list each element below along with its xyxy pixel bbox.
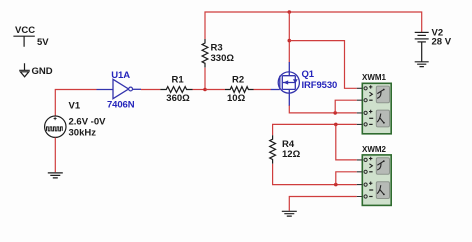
wire R2 to Q1 gate [254,89,272,91]
wire V1 to ground [54,138,56,173]
svg-text:U1A: U1A [111,70,130,81]
wire R3 top to VCC rail [205,12,422,39]
op-amp style inverter U1A 7406N [97,70,142,111]
resistor R1 360 ohm [160,74,192,104]
junction node A (R1 R2 R3) [203,88,207,92]
svg-text:R1: R1 [172,74,185,85]
svg-text:XWM1: XWM1 [362,73,387,82]
svg-text:30kHz: 30kHz [69,128,97,139]
svg-text:2.6V -0V: 2.6V -0V [69,116,107,127]
svg-text:GND: GND [32,66,53,77]
wire Q1 source to XWM1 pin3 [289,106,357,113]
power VCC symbol [13,25,49,48]
junction node R4 top branch [334,123,338,127]
ground under V2 [415,62,429,67]
instrument XWM2 wattmeter [357,145,391,206]
instrument XWM1 wattmeter [357,73,391,134]
junction node source branch [333,111,337,115]
wire V1 to U1A input [55,90,96,116]
svg-text:Q1: Q1 [302,69,315,80]
wire R4 top to XWM1 pin4 [273,124,357,135]
ground under V1 [48,173,63,178]
svg-text:28 V: 28 V [432,37,452,48]
svg-text:330Ω: 330Ω [211,53,235,64]
svg-text:12Ω: 12Ω [282,149,301,160]
wire node A to R2 [205,89,225,91]
svg-text:360Ω: 360Ω [166,93,190,104]
svg-text:IRF9530: IRF9530 [302,80,338,91]
ground (bottom middle) [282,211,297,216]
resistor R2 10 ohm [225,74,254,104]
wire R3 bottom to node A [204,68,206,90]
svg-text:5V: 5V [37,37,49,48]
svg-text:XWM2: XWM2 [362,145,387,154]
battery V2 28V [415,28,452,62]
wire R4 bottom to XWM2 pin3 [273,164,357,185]
resistor R3 330 ohm [202,39,234,68]
transistor Q1 IRF9530 (PMOS) [271,62,337,106]
wire source branch to XWM1 pin2 [335,100,357,113]
wire branch to XWM2 pin1 [336,124,357,159]
ground GND symbol (top left) [19,63,53,77]
wire branch to XWM2 pin2 [336,172,357,185]
resistor R4 12 ohm [270,135,301,163]
wire ground to XWM2 pin4 [289,197,357,211]
wire R1 to node A [193,89,206,91]
svg-text:VCC: VCC [15,25,35,36]
junction node R4 bottom branch [334,183,338,187]
junction node on rail above Q1 [288,10,292,14]
wire rail to Q1 drain [288,12,290,63]
svg-text:R2: R2 [232,74,244,85]
svg-text:10Ω: 10Ω [227,93,246,104]
source V1 (clock 2.6V 30kHz) [45,101,107,139]
junction node drain branch [288,39,292,43]
wire drain branch to XWM1 pin1 [289,41,357,89]
svg-text:7406N: 7406N [107,100,135,111]
wire U1A output to R1 [141,89,160,91]
svg-text:V1: V1 [69,101,81,112]
